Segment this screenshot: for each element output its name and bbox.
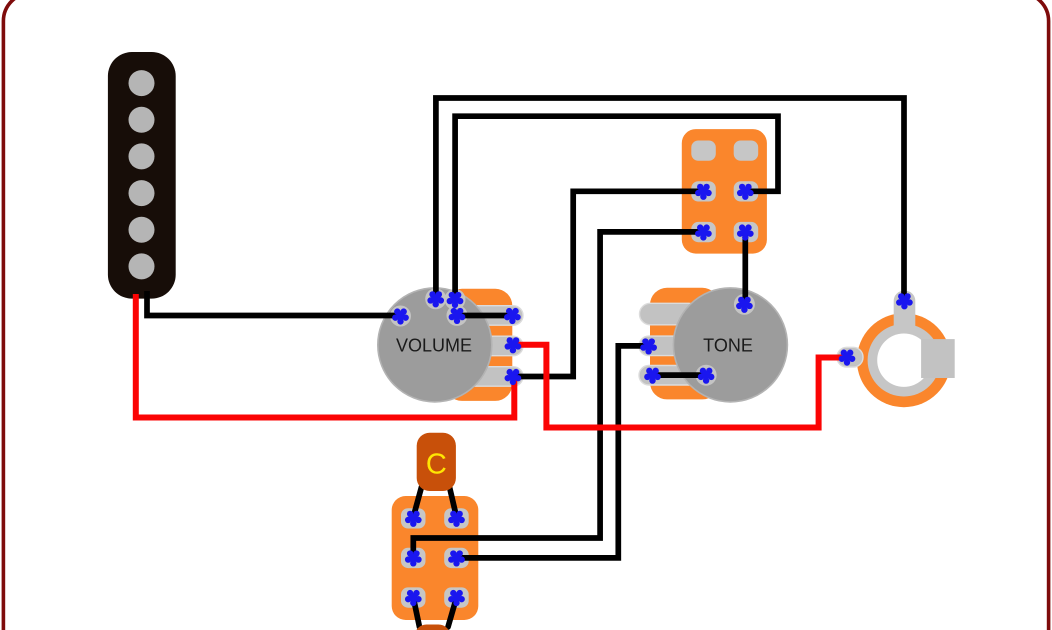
svg-text:TONE: TONE bbox=[703, 336, 753, 356]
svg-text:C: C bbox=[426, 448, 447, 480]
svg-text:VOLUME: VOLUME bbox=[396, 336, 472, 356]
